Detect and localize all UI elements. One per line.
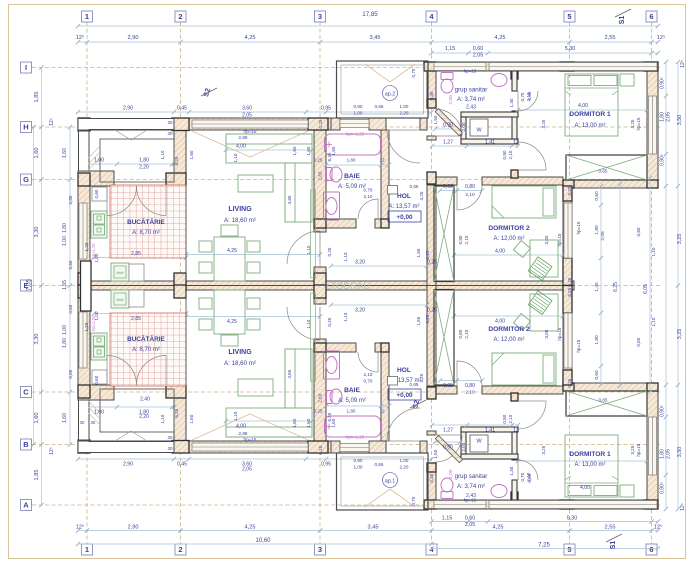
svg-text:3,50: 3,50 (677, 447, 683, 458)
svg-text:3,45: 3,45 (368, 525, 379, 531)
svg-text:1,80: 1,80 (347, 409, 356, 414)
svg-text:1,85: 1,85 (34, 92, 40, 103)
furniture (568, 76, 591, 86)
door swing (457, 185, 482, 210)
svg-text:0,70: 0,70 (364, 379, 373, 384)
wall segment (424, 500, 656, 509)
wall segment (563, 188, 572, 286)
wall pier (314, 343, 326, 352)
svg-text:2,10: 2,10 (526, 472, 531, 481)
door swing (457, 361, 482, 386)
svg-text:DORMITOR 2: DORMITOR 2 (488, 326, 530, 333)
wall segment (314, 219, 356, 228)
wall segment (482, 386, 563, 394)
svg-text:1,20: 1,20 (84, 242, 89, 251)
svg-text:0,45: 0,45 (177, 106, 187, 112)
sanitary fixture (441, 492, 453, 499)
sanitary fixture (327, 168, 333, 181)
wall segment (166, 173, 186, 186)
wall pier (424, 500, 436, 509)
sanitary fixture (441, 478, 453, 492)
svg-text:3,20: 3,20 (355, 260, 365, 266)
svg-text:0,80: 0,80 (465, 184, 475, 190)
furniture (530, 240, 558, 277)
furniture (226, 134, 312, 163)
svg-text:2,05: 2,05 (242, 467, 252, 473)
svg-text:1,60: 1,60 (331, 418, 336, 427)
svg-text:6,25: 6,25 (174, 408, 179, 417)
svg-text:0,65: 0,65 (68, 304, 73, 313)
wall segment (563, 286, 572, 384)
window (192, 120, 308, 128)
svg-text:4,25: 4,25 (245, 35, 256, 41)
svg-text:0,25: 0,25 (314, 158, 323, 163)
furniture (285, 163, 312, 222)
door swing (435, 109, 462, 136)
wall segment (166, 385, 186, 398)
svg-text:2: 2 (178, 12, 182, 21)
window (564, 203, 572, 258)
svg-text:2,55: 2,55 (605, 525, 616, 531)
svg-text:S1: S1 (619, 16, 626, 25)
svg-text:1,30: 1,30 (509, 466, 514, 475)
svg-text:0,60: 0,60 (465, 516, 476, 522)
svg-text:hp=15: hp=15 (636, 443, 641, 456)
furniture (594, 486, 617, 496)
svg-text:6,25: 6,25 (567, 287, 572, 296)
svg-text:1,60: 1,60 (34, 413, 40, 424)
wall segment (420, 118, 427, 130)
svg-text:4,25: 4,25 (495, 35, 506, 41)
wall pier (511, 393, 518, 401)
svg-text:A: 18,60 m²: A: 18,60 m² (224, 360, 256, 367)
svg-text:6: 6 (649, 545, 653, 554)
svg-text:2,90: 2,90 (123, 462, 133, 468)
furniture (530, 294, 558, 331)
grid bubble 1 (82, 11, 93, 22)
svg-text:0,85: 0,85 (68, 369, 73, 378)
svg-text:10,60: 10,60 (255, 538, 271, 544)
wall pier (644, 500, 658, 509)
svg-text:BUCĂTĂRIE: BUCĂTĂRIE (127, 334, 165, 343)
svg-text:1,30: 1,30 (509, 98, 514, 107)
svg-text:1,00: 1,00 (400, 104, 409, 109)
svg-text:12: 12 (513, 140, 519, 146)
svg-text:6,25: 6,25 (425, 314, 430, 323)
wall pier (427, 387, 436, 399)
svg-text:2,88: 2,88 (239, 135, 248, 140)
svg-text:0,65: 0,65 (599, 169, 608, 174)
door swing (518, 401, 546, 429)
svg-text:0,25: 0,25 (314, 409, 323, 414)
svg-text:0,90: 0,90 (354, 458, 363, 463)
wall pier (427, 99, 436, 108)
svg-text:HOL: HOL (397, 367, 411, 374)
grid bubble 2 (175, 544, 186, 555)
svg-text:hp=15: hp=15 (636, 117, 641, 130)
furniture (238, 379, 273, 396)
svg-text:BAIE: BAIE (344, 173, 360, 180)
wall segment (427, 70, 436, 108)
wall segment (420, 441, 427, 453)
svg-text:3: 3 (318, 545, 322, 554)
svg-text:DORMITOR 2: DORMITOR 2 (488, 225, 530, 232)
door swing (287, 231, 320, 264)
wall segment (78, 286, 574, 291)
svg-text:2,20: 2,20 (400, 465, 409, 470)
svg-text:LIVING: LIVING (228, 349, 252, 356)
wall segment (647, 383, 658, 509)
sanitary fixture (491, 485, 507, 498)
svg-text:5: 5 (567, 545, 571, 554)
furniture (226, 134, 312, 144)
svg-text:2,40: 2,40 (140, 397, 150, 403)
wall pier (78, 285, 90, 298)
svg-text:12: 12 (379, 158, 385, 163)
svg-text:A: 18,60 m²: A: 18,60 m² (224, 217, 256, 224)
wall segment (427, 177, 457, 185)
svg-text:6,25: 6,25 (174, 156, 179, 165)
sanitary fixture (491, 74, 507, 87)
svg-text:2,43: 2,43 (466, 105, 476, 111)
svg-text:2,88: 2,88 (239, 431, 248, 436)
svg-text:2,90: 2,90 (123, 106, 133, 112)
svg-text:5,30: 5,30 (565, 46, 576, 52)
furniture (247, 298, 260, 309)
wall segment (381, 352, 389, 441)
wall segment (482, 177, 563, 185)
furniture (568, 486, 591, 496)
wall pier (381, 219, 389, 228)
svg-text:12⁵: 12⁵ (657, 34, 666, 41)
furniture (199, 262, 212, 273)
wall segment (78, 171, 90, 286)
svg-text:3,25: 3,25 (541, 119, 546, 128)
grid bubble E (21, 280, 32, 291)
partition wall (461, 427, 518, 432)
door swing (518, 142, 546, 170)
svg-text:2,20: 2,20 (400, 111, 409, 116)
sanitary fixture (327, 391, 333, 404)
svg-text:0,90⁵: 0,90⁵ (660, 77, 666, 89)
svg-text:2,20: 2,20 (139, 414, 149, 420)
svg-text:1,50: 1,50 (433, 115, 438, 124)
svg-text:4,65: 4,65 (287, 369, 292, 378)
wall segment (174, 118, 331, 130)
svg-text:1,80: 1,80 (139, 158, 149, 164)
svg-text:hpn=1,20: hpn=1,20 (346, 132, 365, 137)
wall pier (644, 62, 658, 71)
wall segment (565, 383, 658, 391)
furniture (91, 211, 107, 238)
svg-text:1,10: 1,10 (233, 411, 238, 420)
svg-text:1,60: 1,60 (189, 150, 194, 159)
svg-text:A: 13,00 m²: A: 13,00 m² (574, 462, 605, 468)
svg-text:1,00: 1,00 (62, 236, 68, 246)
svg-text:0,60: 0,60 (94, 189, 99, 198)
svg-text:1,00: 1,00 (94, 253, 99, 262)
window (79, 203, 87, 259)
wall segment (381, 130, 389, 219)
svg-text:A: 8,70 m²: A: 8,70 m² (132, 230, 160, 236)
svg-text:1,00: 1,00 (94, 410, 104, 416)
wall segment (78, 286, 90, 401)
svg-text:4,25: 4,25 (493, 525, 504, 531)
wall segment (647, 62, 658, 188)
wall segment (511, 170, 518, 178)
svg-text:2,05: 2,05 (242, 113, 252, 119)
svg-text:1,60: 1,60 (292, 146, 297, 155)
svg-text:3,50: 3,50 (677, 115, 683, 126)
wall segment (78, 281, 574, 286)
furniture (543, 355, 554, 383)
svg-text:2,00: 2,00 (461, 442, 466, 451)
svg-text:30: 30 (167, 435, 173, 440)
wall segment (427, 386, 457, 394)
svg-text:DORMITOR 1: DORMITOR 1 (569, 451, 611, 458)
furniture (111, 263, 129, 281)
svg-text:0,80: 0,80 (502, 150, 507, 159)
partition wall (512, 430, 517, 460)
wall pier (166, 173, 186, 186)
svg-text:1,85: 1,85 (34, 470, 40, 481)
sanitary fixture (324, 351, 340, 379)
svg-text:30: 30 (167, 120, 173, 125)
furniture (543, 188, 554, 216)
furniture (565, 435, 618, 497)
svg-text:2,20: 2,20 (139, 165, 149, 171)
svg-text:LIVING: LIVING (228, 206, 252, 213)
svg-text:3,25: 3,25 (541, 445, 546, 454)
svg-text:1,27: 1,27 (443, 428, 453, 434)
wall pier (78, 273, 90, 286)
sanitary fixture (330, 389, 342, 404)
svg-text:4,00: 4,00 (236, 424, 246, 430)
svg-text:1,10: 1,10 (233, 153, 238, 162)
svg-text:1,80: 1,80 (594, 335, 600, 345)
svg-text:1: 1 (85, 545, 89, 554)
sanitary fixture (330, 167, 342, 182)
svg-text:0,65: 0,65 (599, 398, 608, 403)
door swing (518, 460, 538, 480)
svg-text:2,10: 2,10 (464, 329, 469, 338)
door swing (387, 408, 420, 441)
wall pier (78, 118, 90, 131)
svg-text:3,30: 3,30 (34, 334, 40, 345)
wall pier (563, 180, 574, 188)
svg-text:S1: S1 (610, 541, 617, 550)
svg-text:G: G (23, 175, 29, 184)
svg-text:2,85: 2,85 (131, 316, 141, 322)
grid bubble B (21, 439, 32, 450)
svg-text:1,60: 1,60 (306, 418, 311, 427)
svg-text:30: 30 (167, 131, 173, 136)
svg-text:6: 6 (649, 12, 653, 21)
wall segment (78, 171, 114, 186)
wall pier (308, 118, 328, 130)
shaft/closet X (566, 391, 647, 416)
window (434, 63, 486, 71)
wall pier (314, 285, 326, 298)
grid bubble 6 (646, 11, 657, 22)
svg-text:2,05: 2,05 (666, 449, 672, 459)
svg-text:1,00: 1,00 (354, 465, 363, 470)
wall segment (174, 398, 186, 441)
svg-text:0,25: 0,25 (318, 119, 323, 128)
svg-text:4,00: 4,00 (578, 103, 588, 109)
furniture (285, 349, 312, 408)
furniture (285, 349, 295, 408)
wall segment (314, 267, 326, 286)
svg-text:A: 13,00 m²: A: 13,00 m² (574, 123, 605, 129)
svg-text:ap.1: ap.1 (385, 479, 396, 485)
wall pier (563, 370, 572, 385)
door swing (358, 352, 378, 372)
wall segment (511, 393, 518, 401)
svg-text:A: 12,00 m²: A: 12,00 m² (493, 337, 524, 343)
furniture (492, 353, 556, 385)
entry door leaf (435, 109, 462, 136)
svg-text:0,60: 0,60 (94, 375, 99, 384)
svg-text:4,00: 4,00 (495, 319, 505, 325)
svg-text:A: 3,74 m²: A: 3,74 m² (457, 97, 485, 103)
sanitary fixture (325, 416, 381, 437)
furniture (226, 427, 312, 437)
svg-text:2,10: 2,10 (464, 235, 469, 244)
svg-text:7,05: 7,05 (27, 279, 33, 291)
svg-text:1,00: 1,00 (94, 311, 99, 320)
wall segment (314, 339, 326, 453)
svg-text:3,20: 3,20 (355, 308, 365, 314)
svg-text:17,85: 17,85 (362, 11, 378, 18)
svg-text:LTODRAU: LTODRAU (326, 281, 371, 292)
svg-text:B: B (23, 440, 29, 449)
wall pier (78, 173, 90, 186)
sanitary fixture (441, 79, 453, 93)
grid bubble C (21, 387, 32, 398)
wall segment (427, 172, 436, 286)
svg-text:1,80: 1,80 (62, 223, 68, 233)
svg-text:2,05: 2,05 (600, 231, 606, 241)
svg-text:1,20: 1,20 (84, 322, 89, 331)
partition wall (461, 112, 518, 117)
window (340, 444, 369, 452)
svg-text:1,60: 1,60 (189, 414, 194, 423)
svg-text:1,80: 1,80 (62, 338, 68, 348)
svg-text:A: 13,57 m²: A: 13,57 m² (388, 204, 419, 210)
svg-text:2: 2 (178, 545, 182, 554)
svg-text:1,27: 1,27 (443, 140, 453, 146)
wall pier (563, 383, 574, 391)
grid bubble 1 (82, 544, 93, 555)
svg-text:1,00: 1,00 (94, 158, 104, 164)
svg-text:3,25: 3,25 (630, 445, 635, 454)
svg-text:1,55: 1,55 (62, 280, 68, 290)
grid bubble 6 (646, 544, 657, 555)
wall pier (560, 62, 574, 71)
svg-text:hp=15: hp=15 (464, 69, 477, 74)
grid bubble 3 (315, 11, 326, 22)
svg-text:I: I (25, 63, 27, 72)
svg-text:1,13: 1,13 (343, 312, 348, 321)
svg-text:0,90⁵: 0,90⁵ (660, 482, 666, 494)
wall pier (560, 500, 574, 509)
svg-text:0,90⁵: 0,90⁵ (660, 154, 666, 166)
grid bubble 5 (564, 11, 575, 22)
wall pier (563, 286, 572, 314)
svg-text:0,35: 0,35 (429, 91, 434, 100)
sanitary fixture (324, 192, 340, 220)
furniture (247, 319, 260, 330)
wall pier (174, 285, 186, 298)
svg-text:0,45: 0,45 (177, 462, 187, 468)
door swing (518, 91, 538, 111)
svg-text:0,25: 0,25 (567, 186, 572, 195)
window (434, 501, 486, 509)
svg-text:6,05: 6,05 (643, 284, 649, 294)
svg-text:3,60: 3,60 (242, 106, 252, 112)
svg-text:4,25: 4,25 (245, 525, 256, 531)
svg-text:1,45: 1,45 (594, 282, 600, 292)
svg-text:0,70: 0,70 (520, 92, 525, 101)
svg-text:12⁵: 12⁵ (680, 60, 686, 68)
svg-text:2,85: 2,85 (131, 251, 141, 257)
wall pier (427, 463, 436, 472)
svg-text:1,13: 1,13 (343, 252, 348, 261)
svg-text:4,00: 4,00 (236, 144, 246, 150)
svg-text:2,00: 2,00 (448, 95, 454, 105)
svg-text:1,15: 1,15 (442, 516, 453, 522)
furniture (620, 74, 634, 86)
door swing (287, 307, 320, 340)
svg-text:6,25: 6,25 (425, 250, 430, 259)
wall pier (166, 385, 186, 398)
svg-text:+0,00: +0,00 (396, 214, 413, 221)
grid bubble I (21, 62, 32, 73)
svg-text:1,60: 1,60 (62, 413, 68, 423)
svg-text:2,10: 2,10 (508, 150, 513, 159)
svg-text:0,25: 0,25 (327, 317, 332, 326)
svg-text:1,10: 1,10 (160, 150, 165, 159)
furniture (221, 225, 238, 236)
wall segment (174, 441, 331, 453)
svg-text:hpn=1,20: hpn=1,20 (346, 435, 365, 440)
svg-text:12⁵: 12⁵ (654, 524, 663, 531)
partition wall (461, 117, 466, 144)
wall segment (427, 431, 436, 435)
svg-text:4,25: 4,25 (227, 248, 237, 254)
partition wall (512, 71, 517, 91)
window (79, 403, 87, 430)
svg-text:12: 12 (379, 409, 385, 414)
wall segment (369, 118, 386, 130)
svg-text:4,65: 4,65 (287, 195, 292, 204)
svg-text:1,50: 1,50 (433, 449, 438, 458)
svg-text:3,00: 3,00 (544, 329, 549, 338)
svg-text:A: 3,74 m²: A: 3,74 m² (457, 484, 485, 490)
svg-text:grup sanitar: grup sanitar (455, 87, 488, 94)
svg-text:0,25: 0,25 (327, 247, 332, 256)
furniture (199, 298, 212, 309)
svg-text:30: 30 (167, 446, 173, 451)
svg-text:A: 12,00 m²: A: 12,00 m² (493, 236, 524, 242)
window (192, 443, 308, 451)
svg-text:12⁵: 12⁵ (76, 34, 85, 41)
svg-text:+0,00: +0,00 (396, 392, 413, 399)
wall pier (647, 383, 658, 391)
wall segment (565, 180, 658, 188)
wall segment (314, 118, 326, 232)
